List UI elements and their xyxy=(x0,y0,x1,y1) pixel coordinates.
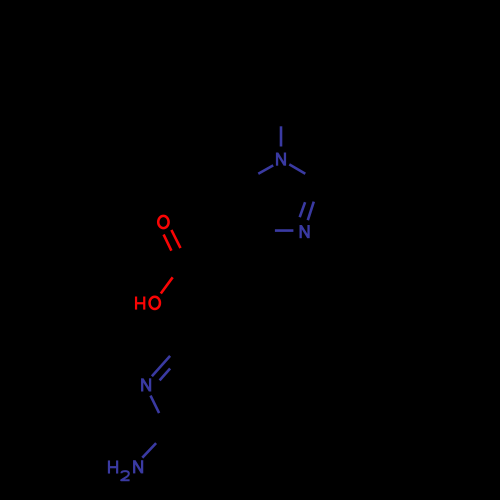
subscript 2 of H2N xyxy=(121,471,129,480)
wire N1-C2 bond (blue half) xyxy=(289,164,305,173)
wire C6=N1 double bond main line (blue half) xyxy=(152,356,170,376)
amino group xyxy=(109,443,156,480)
node HO hydroxyl label: H then O xyxy=(136,297,144,310)
carboxylic acid group xyxy=(136,216,180,310)
node N3 imidazole nitrogen label xyxy=(301,225,309,238)
wire C=O double bond line A (red) xyxy=(171,230,180,248)
wire C2-NH2 bond (blue half) xyxy=(142,443,156,458)
wire N1-C5 bond (blue half) xyxy=(258,165,273,173)
node O carbonyl oxygen label xyxy=(158,216,168,228)
wire C-OH bond (red half) xyxy=(161,277,173,293)
wire C=O double bond line B (red) xyxy=(164,235,172,251)
wire C2=N3 double bond inner line (blue half) xyxy=(300,202,305,217)
node N pyridine nitrogen label xyxy=(142,378,150,391)
wire N1-CH3 bond (blue half) xyxy=(280,126,283,146)
wire C2=N3 double bond main line (blue half) xyxy=(308,202,314,221)
node N1 imidazole nitrogen label xyxy=(277,153,285,166)
pyridine ring xyxy=(142,356,170,413)
node H2N amino label: H, subscript 2, N xyxy=(109,460,117,473)
wire N3-C4 bond (blue half) xyxy=(275,229,294,232)
imidazole ring (visible blue halves of bonds) xyxy=(258,126,314,238)
wire N1-C2 bond (blue half) xyxy=(151,396,160,414)
wire C6=N1 double bond inner line (blue half) xyxy=(160,369,171,381)
